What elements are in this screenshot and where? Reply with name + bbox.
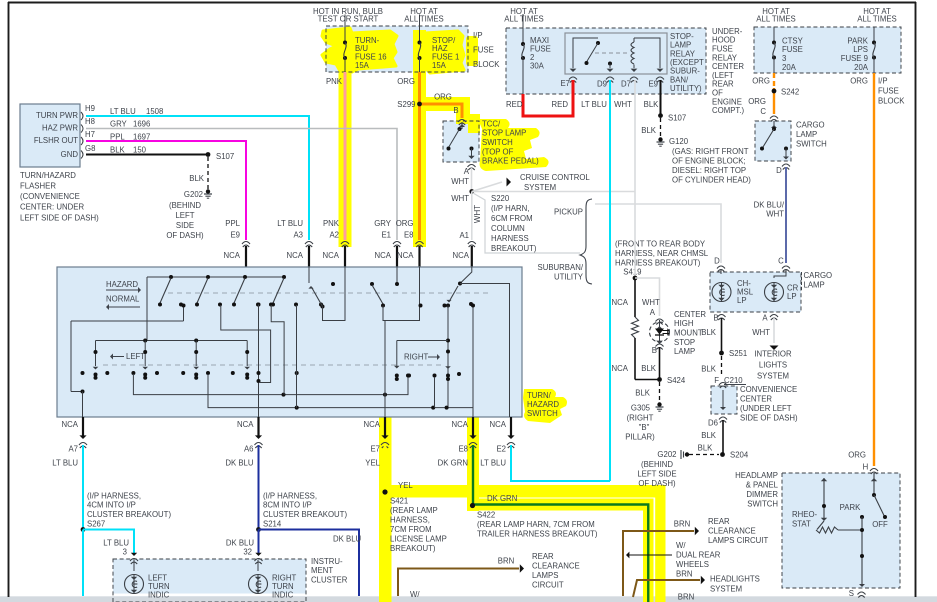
svg-text:A2: A2 bbox=[329, 230, 339, 239]
svg-text:(RIGHT: (RIGHT bbox=[627, 413, 654, 422]
svg-text:(REAR LAMP HARN, 7CM FROM: (REAR LAMP HARN, 7CM FROM bbox=[477, 520, 595, 529]
svg-text:CIRCUIT: CIRCUIT bbox=[532, 580, 564, 589]
svg-text:BLK: BLK bbox=[644, 100, 660, 109]
svg-text:NCA: NCA bbox=[453, 251, 470, 260]
svg-text:SWITCH: SWITCH bbox=[527, 409, 558, 418]
svg-text:32: 32 bbox=[243, 547, 252, 556]
svg-text:BRN: BRN bbox=[498, 556, 514, 565]
svg-text:INTERIOR: INTERIOR bbox=[754, 349, 792, 358]
svg-text:LAMPS CIRCUIT: LAMPS CIRCUIT bbox=[708, 536, 768, 545]
svg-text:BRAKE PEDAL): BRAKE PEDAL) bbox=[482, 157, 539, 166]
svg-text:NCA: NCA bbox=[237, 420, 254, 429]
svg-text:D: D bbox=[776, 166, 782, 175]
svg-text:BLOCK: BLOCK bbox=[878, 96, 905, 105]
svg-text:1508: 1508 bbox=[146, 107, 163, 116]
svg-text:BLOCK: BLOCK bbox=[473, 60, 500, 69]
svg-text:UTILITY): UTILITY) bbox=[670, 84, 702, 93]
svg-text:FLSHR OUT: FLSHR OUT bbox=[34, 136, 78, 145]
svg-text:OF: OF bbox=[712, 89, 723, 98]
svg-text:BAN/: BAN/ bbox=[670, 75, 689, 84]
svg-text:FUSE: FUSE bbox=[878, 86, 899, 95]
svg-text:(GAS: RIGHT FRONT: (GAS: RIGHT FRONT bbox=[672, 147, 749, 156]
svg-text:NCA: NCA bbox=[62, 420, 79, 429]
svg-text:LEFT SIDE OF DASH): LEFT SIDE OF DASH) bbox=[20, 213, 99, 222]
svg-text:7CM FROM: 7CM FROM bbox=[390, 525, 432, 534]
svg-text:PILLAR): PILLAR) bbox=[625, 432, 655, 441]
svg-text:D6: D6 bbox=[708, 418, 718, 427]
svg-text:20A: 20A bbox=[782, 63, 797, 72]
svg-text:D9: D9 bbox=[597, 79, 607, 88]
svg-text:REAR: REAR bbox=[708, 517, 730, 526]
svg-text:LAMPS: LAMPS bbox=[532, 571, 558, 580]
svg-text:LT BLU: LT BLU bbox=[480, 458, 506, 467]
svg-text:3: 3 bbox=[123, 547, 127, 556]
svg-text:GRY: GRY bbox=[374, 219, 392, 228]
svg-text:HEADLIGHTS: HEADLIGHTS bbox=[710, 574, 760, 583]
svg-text:CENTER: UNDER: CENTER: UNDER bbox=[20, 203, 84, 212]
svg-text:& PANEL: & PANEL bbox=[746, 481, 779, 490]
svg-text:E9: E9 bbox=[648, 79, 658, 88]
svg-text:BLK: BLK bbox=[701, 328, 717, 337]
svg-text:S419: S419 bbox=[623, 267, 641, 276]
svg-text:RED: RED bbox=[506, 100, 523, 109]
svg-text:A: A bbox=[464, 167, 470, 176]
svg-text:FUSE 9: FUSE 9 bbox=[841, 54, 868, 63]
svg-text:BLK: BLK bbox=[641, 364, 657, 373]
svg-text:NCA: NCA bbox=[490, 420, 507, 429]
svg-text:INDIC: INDIC bbox=[272, 590, 294, 599]
svg-text:HARNESS BREAKOUT): HARNESS BREAKOUT) bbox=[615, 258, 701, 267]
svg-text:CONVENIENCE: CONVENIENCE bbox=[740, 385, 797, 394]
svg-text:BLK: BLK bbox=[701, 364, 717, 373]
svg-text:E2: E2 bbox=[496, 444, 506, 453]
svg-text:TRAILER HARNESS BREAKOUT): TRAILER HARNESS BREAKOUT) bbox=[477, 529, 598, 538]
svg-text:HARNESS: HARNESS bbox=[491, 234, 529, 243]
svg-text:G120: G120 bbox=[669, 137, 689, 146]
svg-text:FUSE: FUSE bbox=[473, 46, 494, 55]
svg-text:(BEHIND: (BEHIND bbox=[169, 201, 201, 210]
svg-text:(REAR LAMP: (REAR LAMP bbox=[390, 506, 438, 515]
svg-text:ALL TIMES: ALL TIMES bbox=[504, 15, 543, 24]
svg-text:DK BLU: DK BLU bbox=[333, 534, 362, 543]
svg-text:CLEARANCE: CLEARANCE bbox=[532, 561, 580, 570]
svg-text:MOUNT: MOUNT bbox=[674, 329, 703, 338]
svg-text:OF DASH): OF DASH) bbox=[166, 231, 204, 240]
svg-text:BLK: BLK bbox=[641, 126, 657, 135]
svg-text:D: D bbox=[714, 256, 720, 265]
svg-text:S422: S422 bbox=[477, 510, 495, 519]
svg-text:COMPT.): COMPT.) bbox=[712, 106, 744, 115]
svg-text:HAZARD: HAZARD bbox=[527, 400, 559, 409]
svg-text:PNK: PNK bbox=[323, 219, 340, 228]
svg-text:S204: S204 bbox=[730, 450, 749, 459]
svg-text:BRN: BRN bbox=[678, 592, 694, 601]
svg-text:HARNESS,: HARNESS, bbox=[390, 515, 430, 524]
svg-text:TEST OR START: TEST OR START bbox=[318, 15, 379, 24]
svg-text:NORMAL: NORMAL bbox=[106, 294, 140, 303]
svg-text:STOP-: STOP- bbox=[670, 32, 694, 41]
svg-text:(CONVENIENCE: (CONVENIENCE bbox=[20, 192, 80, 201]
svg-text:BLK: BLK bbox=[701, 431, 717, 440]
svg-text:YEL: YEL bbox=[398, 481, 413, 490]
svg-text:SUBURBAN/: SUBURBAN/ bbox=[538, 263, 584, 272]
svg-text:CENTER: CENTER bbox=[712, 62, 744, 71]
svg-text:A3: A3 bbox=[293, 230, 303, 239]
svg-text:NCA: NCA bbox=[364, 420, 381, 429]
svg-text:TCC/: TCC/ bbox=[482, 119, 501, 128]
svg-text:STAT: STAT bbox=[792, 519, 811, 528]
svg-text:ORG: ORG bbox=[396, 219, 414, 228]
svg-text:BLK: BLK bbox=[110, 145, 126, 154]
svg-text:OF CYLINDER HEAD): OF CYLINDER HEAD) bbox=[672, 175, 751, 184]
svg-text:OF ENGINE BLOCK;: OF ENGINE BLOCK; bbox=[672, 156, 746, 165]
svg-text:C: C bbox=[760, 107, 766, 116]
svg-text:E1: E1 bbox=[381, 230, 391, 239]
svg-text:S214: S214 bbox=[263, 519, 282, 528]
svg-text:ORG: ORG bbox=[848, 450, 866, 459]
svg-text:LAMP: LAMP bbox=[674, 347, 695, 356]
svg-text:(FRONT TO REAR BODY: (FRONT TO REAR BODY bbox=[615, 239, 706, 248]
svg-text:H8: H8 bbox=[85, 117, 95, 126]
svg-text:COLUMN: COLUMN bbox=[491, 224, 525, 233]
svg-text:S: S bbox=[849, 589, 854, 598]
svg-text:G8: G8 bbox=[85, 144, 95, 153]
svg-text:ALL TIMES: ALL TIMES bbox=[857, 15, 896, 24]
svg-text:LT BLU: LT BLU bbox=[103, 538, 129, 547]
svg-text:CARGO: CARGO bbox=[804, 271, 833, 280]
svg-text:A: A bbox=[650, 308, 656, 317]
svg-text:A6: A6 bbox=[244, 444, 254, 453]
svg-text:NCA: NCA bbox=[452, 420, 469, 429]
svg-text:NCA: NCA bbox=[287, 251, 304, 260]
svg-text:WHT: WHT bbox=[752, 328, 770, 337]
svg-text:WHT: WHT bbox=[473, 205, 482, 223]
svg-text:DUAL REAR: DUAL REAR bbox=[676, 551, 721, 560]
svg-text:FUSE: FUSE bbox=[782, 45, 803, 54]
svg-text:STOP LAMP: STOP LAMP bbox=[482, 129, 526, 138]
svg-text:ORG: ORG bbox=[397, 77, 415, 86]
svg-text:LEFT SIDE: LEFT SIDE bbox=[637, 469, 676, 478]
svg-text:(TOP OF: (TOP OF bbox=[482, 147, 514, 156]
svg-text:WHT: WHT bbox=[766, 209, 784, 218]
svg-text:CENTER: CENTER bbox=[674, 310, 706, 319]
svg-text:S220: S220 bbox=[491, 194, 510, 203]
svg-text:GRY: GRY bbox=[110, 119, 128, 128]
svg-text:S107: S107 bbox=[668, 113, 686, 122]
svg-text:D7: D7 bbox=[621, 79, 631, 88]
svg-text:DIMMER: DIMMER bbox=[746, 490, 778, 499]
svg-text:6CM FROM: 6CM FROM bbox=[491, 214, 533, 223]
svg-text:FLASHER: FLASHER bbox=[20, 182, 56, 191]
svg-text:8CM INTO I/P: 8CM INTO I/P bbox=[263, 501, 312, 510]
svg-text:(BEHIND: (BEHIND bbox=[641, 460, 673, 469]
svg-text:CARGO: CARGO bbox=[796, 120, 825, 129]
svg-text:150: 150 bbox=[133, 145, 147, 154]
svg-text:DK BLU: DK BLU bbox=[226, 538, 255, 547]
svg-text:S421: S421 bbox=[390, 496, 408, 505]
svg-text:CENTER: CENTER bbox=[740, 395, 772, 404]
svg-text:H7: H7 bbox=[85, 130, 95, 139]
svg-text:NCA: NCA bbox=[375, 251, 392, 260]
svg-text:LT BLU: LT BLU bbox=[581, 100, 607, 109]
svg-text:LP: LP bbox=[787, 292, 797, 301]
svg-text:TURN PWR: TURN PWR bbox=[36, 111, 78, 120]
svg-text:DK BLU/: DK BLU/ bbox=[754, 200, 785, 209]
svg-text:BRN: BRN bbox=[676, 570, 692, 579]
svg-text:W/: W/ bbox=[410, 590, 420, 599]
svg-text:S299: S299 bbox=[397, 100, 415, 109]
svg-text:STOP: STOP bbox=[674, 338, 695, 347]
svg-text:REAR: REAR bbox=[712, 80, 734, 89]
svg-text:HAZARD: HAZARD bbox=[106, 280, 138, 289]
svg-text:G305: G305 bbox=[631, 403, 651, 412]
svg-text:20A: 20A bbox=[854, 63, 869, 72]
svg-text:A7: A7 bbox=[68, 444, 78, 453]
svg-text:RHEO-: RHEO- bbox=[792, 510, 818, 519]
svg-text:HAZ PWR: HAZ PWR bbox=[42, 123, 78, 132]
svg-text:3: 3 bbox=[782, 54, 786, 63]
svg-text:TURN/: TURN/ bbox=[527, 391, 552, 400]
svg-text:NCA: NCA bbox=[224, 251, 241, 260]
svg-text:HARNESS, NEAR CHMSL: HARNESS, NEAR CHMSL bbox=[615, 249, 709, 258]
svg-text:LAMP: LAMP bbox=[796, 130, 817, 139]
svg-text:15A: 15A bbox=[355, 61, 370, 70]
svg-text:S242: S242 bbox=[781, 87, 799, 96]
svg-text:DIESEL: RIGHT TOP: DIESEL: RIGHT TOP bbox=[672, 166, 746, 175]
svg-text:B: B bbox=[713, 313, 718, 322]
svg-text:E8: E8 bbox=[458, 444, 468, 453]
svg-text:RIGHT: RIGHT bbox=[404, 352, 428, 361]
svg-text:ALL TIMES: ALL TIMES bbox=[404, 15, 443, 24]
svg-text:30A: 30A bbox=[530, 61, 545, 70]
svg-text:G202: G202 bbox=[184, 190, 203, 199]
svg-text:BLK: BLK bbox=[698, 443, 714, 452]
svg-text:CTSY: CTSY bbox=[782, 36, 804, 45]
svg-text:OFF: OFF bbox=[872, 520, 888, 529]
svg-text:I/P: I/P bbox=[878, 76, 888, 85]
svg-text:BREAKOUT): BREAKOUT) bbox=[390, 544, 436, 553]
svg-text:BLK: BLK bbox=[189, 174, 205, 183]
svg-text:W/: W/ bbox=[676, 541, 686, 550]
svg-text:HIGH: HIGH bbox=[674, 319, 694, 328]
svg-text:INSTRU-: INSTRU- bbox=[311, 557, 343, 566]
svg-text:LAMP: LAMP bbox=[804, 280, 825, 289]
svg-text:RED: RED bbox=[552, 100, 569, 109]
svg-text:LP: LP bbox=[737, 296, 747, 305]
svg-text:C210: C210 bbox=[724, 376, 743, 385]
svg-text:SYSTEM: SYSTEM bbox=[710, 584, 742, 593]
svg-text:LICENSE LAMP: LICENSE LAMP bbox=[390, 534, 447, 543]
svg-text:SYSTEM: SYSTEM bbox=[524, 183, 556, 192]
svg-text:CLEARANCE: CLEARANCE bbox=[708, 526, 756, 535]
svg-text:ORG: ORG bbox=[752, 76, 770, 85]
svg-text:SWITCH: SWITCH bbox=[747, 500, 778, 509]
svg-text:E9: E9 bbox=[230, 230, 240, 239]
svg-text:NCA: NCA bbox=[397, 251, 414, 260]
svg-text:ORG: ORG bbox=[434, 92, 452, 101]
svg-text:SWITCH: SWITCH bbox=[482, 138, 513, 147]
svg-text:RELAY: RELAY bbox=[670, 49, 696, 58]
svg-text:PICKUP: PICKUP bbox=[554, 207, 583, 216]
svg-text:FUSE: FUSE bbox=[712, 45, 733, 54]
svg-text:LIGHTS: LIGHTS bbox=[759, 360, 787, 369]
svg-text:(EXCEPT: (EXCEPT bbox=[670, 58, 704, 67]
svg-text:H9: H9 bbox=[85, 104, 95, 113]
svg-text:UNDER-: UNDER- bbox=[712, 27, 743, 36]
svg-text:S267: S267 bbox=[87, 519, 105, 528]
svg-text:LT BLU: LT BLU bbox=[52, 458, 78, 467]
svg-text:1696: 1696 bbox=[133, 119, 150, 128]
svg-text:PNK: PNK bbox=[326, 77, 343, 86]
svg-text:E7: E7 bbox=[560, 79, 570, 88]
svg-text:S107: S107 bbox=[216, 152, 234, 161]
svg-text:S251: S251 bbox=[729, 349, 747, 358]
svg-text:4CM INTO I/P: 4CM INTO I/P bbox=[87, 501, 136, 510]
svg-text:B: B bbox=[652, 346, 657, 355]
svg-text:S424: S424 bbox=[667, 376, 686, 385]
svg-text:NCA: NCA bbox=[612, 364, 629, 373]
svg-text:CLUSTER BREAKOUT): CLUSTER BREAKOUT) bbox=[263, 510, 347, 519]
svg-text:ALL TIMES: ALL TIMES bbox=[756, 15, 795, 24]
svg-text:CLUSTER BREAKOUT): CLUSTER BREAKOUT) bbox=[87, 510, 171, 519]
svg-text:LEFT: LEFT bbox=[175, 211, 194, 220]
svg-text:(I/P HARN,: (I/P HARN, bbox=[491, 204, 529, 213]
svg-text:(LEFT: (LEFT bbox=[712, 71, 734, 80]
svg-text:BLK: BLK bbox=[635, 388, 651, 397]
svg-text:SWITCH: SWITCH bbox=[796, 139, 827, 148]
svg-text:DK GRN: DK GRN bbox=[438, 458, 468, 467]
svg-text:E7: E7 bbox=[370, 444, 380, 453]
svg-text:HEADLAMP: HEADLAMP bbox=[735, 471, 778, 480]
svg-text:C: C bbox=[778, 256, 784, 265]
svg-text:HOOD: HOOD bbox=[712, 36, 736, 45]
svg-text:"B": "B" bbox=[639, 423, 650, 432]
svg-text:WHT: WHT bbox=[642, 298, 660, 307]
svg-text:NCA: NCA bbox=[323, 251, 340, 260]
svg-text:15A: 15A bbox=[432, 61, 447, 70]
svg-text:E8: E8 bbox=[404, 230, 414, 239]
svg-text:LPS: LPS bbox=[853, 45, 868, 54]
svg-text:(I/P HARNESS,: (I/P HARNESS, bbox=[87, 491, 141, 500]
svg-text:YEL: YEL bbox=[365, 458, 380, 467]
svg-text:REAR: REAR bbox=[532, 552, 554, 561]
svg-text:ORG: ORG bbox=[748, 97, 766, 106]
svg-text:A1: A1 bbox=[459, 231, 469, 240]
svg-text:WHT: WHT bbox=[614, 100, 632, 109]
svg-text:INDIC: INDIC bbox=[148, 590, 170, 599]
svg-text:BRN: BRN bbox=[674, 519, 690, 528]
svg-text:GND: GND bbox=[61, 150, 79, 159]
svg-text:DK GRN: DK GRN bbox=[487, 494, 517, 503]
svg-text:SYSTEM: SYSTEM bbox=[757, 371, 789, 380]
svg-text:ORG: ORG bbox=[850, 76, 868, 85]
svg-text:BREAKOUT): BREAKOUT) bbox=[491, 244, 537, 253]
svg-text:SUBUR-: SUBUR- bbox=[670, 67, 700, 76]
svg-text:WHT: WHT bbox=[451, 177, 469, 186]
svg-text:NCA: NCA bbox=[612, 298, 629, 307]
svg-text:F: F bbox=[714, 376, 719, 385]
svg-text:PARK: PARK bbox=[847, 36, 868, 45]
svg-text:(I/P HARNESS,: (I/P HARNESS, bbox=[263, 491, 317, 500]
svg-text:SIDE: SIDE bbox=[176, 221, 194, 230]
svg-text:B: B bbox=[453, 106, 458, 115]
svg-text:CRUISE CONTROL: CRUISE CONTROL bbox=[520, 173, 590, 182]
svg-text:ENGINE: ENGINE bbox=[712, 97, 742, 106]
svg-text:MENT: MENT bbox=[311, 566, 333, 575]
svg-text:WHT: WHT bbox=[451, 194, 469, 203]
svg-text:A: A bbox=[762, 313, 768, 322]
svg-text:WHEELS: WHEELS bbox=[676, 560, 709, 569]
svg-text:RELAY: RELAY bbox=[712, 53, 738, 62]
svg-text:LT BLU: LT BLU bbox=[277, 219, 303, 228]
svg-text:TURN/HAZARD: TURN/HAZARD bbox=[20, 171, 76, 180]
svg-text:OF DASH): OF DASH) bbox=[638, 479, 676, 488]
svg-text:LT BLU: LT BLU bbox=[110, 107, 136, 116]
svg-text:DK BLU: DK BLU bbox=[225, 458, 254, 467]
svg-text:UTILITY: UTILITY bbox=[554, 272, 584, 281]
svg-text:H: H bbox=[863, 462, 869, 471]
svg-text:(UNDER LEFT: (UNDER LEFT bbox=[740, 404, 792, 413]
svg-text:SIDE OF DASH): SIDE OF DASH) bbox=[740, 414, 798, 423]
svg-text:G202: G202 bbox=[657, 450, 676, 459]
svg-text:PARK: PARK bbox=[840, 503, 861, 512]
svg-text:PPL: PPL bbox=[225, 219, 240, 228]
svg-text:LAMP: LAMP bbox=[670, 41, 691, 50]
svg-text:CLUSTER: CLUSTER bbox=[311, 576, 348, 585]
svg-text:LEFT: LEFT bbox=[126, 352, 145, 361]
svg-text:I/P: I/P bbox=[473, 31, 483, 40]
